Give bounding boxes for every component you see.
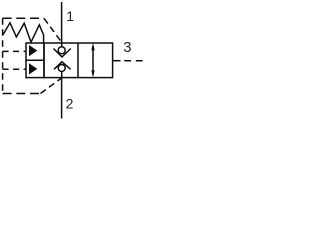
poppet top stub [61, 43, 63, 47]
port 1 line [61, 2, 63, 43]
flow arrow head up [91, 43, 94, 50]
valve position divider [77, 43, 79, 78]
pilot dashed bottom diagonal [41, 78, 62, 94]
poppet seat bottom [54, 62, 71, 70]
valve body outer rectangle [44, 43, 113, 78]
poppet seat top [53, 49, 70, 57]
port 2 line [61, 78, 63, 119]
pilot dashed top diagonal [44, 18, 61, 42]
port 3 stub [113, 60, 121, 62]
pilot box [26, 43, 44, 78]
spring [3, 23, 44, 43]
pilot arrow triangle bottom [29, 63, 37, 74]
pilot dashed left vertical [2, 18, 4, 93]
pilot dashed line to top triangle [3, 50, 26, 52]
poppet ball top [58, 47, 65, 54]
poppet bottom stub [61, 71, 63, 77]
svg-text:1: 1 [66, 8, 74, 24]
flow arrow shaft [92, 48, 94, 73]
pilot dashed line to bottom triangle [3, 68, 26, 70]
pilot arrow triangle top [29, 45, 37, 56]
svg-text:3: 3 [123, 40, 131, 56]
flow arrow head down [91, 70, 94, 77]
pilot box divider [26, 59, 44, 61]
poppet ball bottom [58, 65, 65, 72]
pilot dashed bottom horizontal [3, 93, 41, 95]
svg-text:2: 2 [66, 96, 74, 112]
pilot dashed top horizontal [3, 17, 44, 19]
port 3 dashed line [124, 60, 143, 62]
